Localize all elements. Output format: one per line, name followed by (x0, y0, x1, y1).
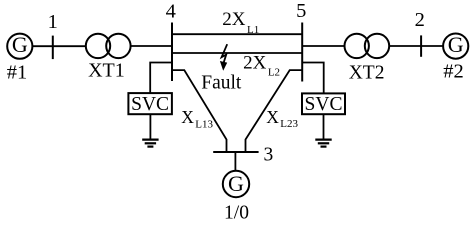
svg-text:3: 3 (264, 145, 274, 166)
svg-text:2: 2 (415, 9, 425, 31)
generator G2 (443, 32, 468, 59)
generator G1 (7, 32, 32, 59)
svg-text:XT2: XT2 (349, 62, 385, 83)
wire XT2 to gen2 (390, 45, 443, 47)
ground under SVC2 (315, 114, 331, 146)
line X_L23 (246, 70, 303, 152)
svg-text:5: 5 (296, 0, 306, 22)
bus 3 (213, 151, 258, 153)
wire bus 4 to SVC1 (150, 63, 172, 94)
bus 2 tick (420, 35, 422, 56)
wire gen1 to XT1 (32, 45, 86, 47)
line 2X_L2 (172, 52, 302, 54)
wire bus 5 to XT2 (302, 45, 344, 47)
svg-text:#2: #2 (443, 61, 464, 83)
transformer XT2 (345, 34, 390, 58)
bus 5 (301, 23, 303, 82)
SVC box left (128, 93, 172, 115)
line X_L13 (172, 70, 227, 152)
svg-text:1: 1 (48, 11, 58, 33)
wire bus 3 to gen3 (234, 152, 236, 171)
svg-text:#1: #1 (7, 61, 28, 83)
svg-text:XT1: XT1 (88, 60, 125, 82)
wire bus 5 to SVC2 (302, 63, 324, 94)
svg-text:SVC: SVC (131, 94, 169, 115)
svg-text:Fault: Fault (201, 72, 242, 93)
svg-text:SVC: SVC (305, 94, 343, 115)
line 2X_L1 (172, 33, 302, 35)
fault lightning bolt (220, 44, 227, 71)
svg-text:G: G (12, 32, 28, 57)
generator G3 (223, 171, 249, 197)
ground under SVC1 (142, 114, 158, 146)
bus 1 tick (52, 36, 54, 60)
bus 4 (171, 23, 173, 82)
transformer XT1 (86, 34, 131, 58)
svg-text:1/0: 1/0 (224, 203, 249, 224)
svg-text:G: G (448, 32, 464, 57)
wire XT1 to bus 4 (131, 45, 172, 47)
SVC box right (302, 93, 345, 115)
svg-text:G: G (228, 171, 244, 196)
svg-text:4: 4 (166, 1, 176, 23)
